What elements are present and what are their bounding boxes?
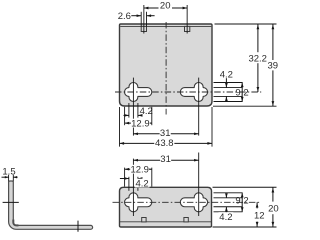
- svg-text:12.9: 12.9: [131, 118, 150, 129]
- svg-text:1.5: 1.5: [2, 167, 15, 178]
- svg-text:12: 12: [254, 210, 265, 221]
- svg-text:32.2: 32.2: [248, 54, 267, 65]
- svg-text:12.9: 12.9: [130, 165, 149, 176]
- svg-text:20: 20: [268, 203, 279, 214]
- svg-text:4.2: 4.2: [140, 106, 153, 117]
- svg-text:31: 31: [160, 154, 171, 165]
- svg-text:9.2: 9.2: [235, 88, 248, 99]
- svg-text:4.2: 4.2: [135, 178, 148, 189]
- svg-text:9.2: 9.2: [235, 195, 248, 206]
- svg-text:20: 20: [160, 0, 171, 11]
- svg-text:4.2: 4.2: [220, 69, 233, 80]
- svg-text:2.6: 2.6: [118, 11, 131, 22]
- svg-text:4.2: 4.2: [219, 212, 232, 223]
- svg-text:39: 39: [268, 60, 279, 71]
- svg-text:43.8: 43.8: [155, 138, 174, 149]
